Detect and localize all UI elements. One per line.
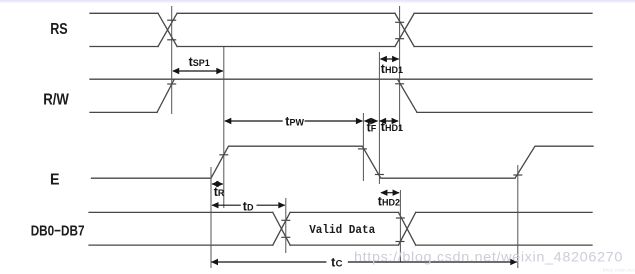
svg-text:E: E bbox=[50, 172, 60, 189]
DB crossover X2 bbox=[399, 212, 416, 245]
cursor line at RS/RW hold upper (x=399.6) bbox=[399, 6, 401, 131]
DB high rail bbox=[89, 211, 592, 213]
tick DB X2 upper bbox=[396, 217, 405, 219]
tR arrow bbox=[212, 183, 223, 185]
tick RS X2 upper bbox=[395, 21, 404, 23]
arrows bbox=[172, 56, 517, 265]
cursor line at E fall start (x=363.4) bbox=[362, 113, 364, 181]
R/W low rail right bbox=[417, 111, 592, 113]
svg-text:tSP1: tSP1 bbox=[189, 55, 210, 69]
RS crossover X2 bbox=[395, 13, 414, 46]
cursor line at next E rise (x=517.8) bbox=[517, 165, 519, 268]
DB crossover X1 bbox=[273, 212, 290, 245]
tick DB X2 lower bbox=[396, 241, 405, 243]
tick DB X1 upper bbox=[281, 219, 290, 221]
tick E rise1 bbox=[219, 154, 228, 156]
tC arrow bbox=[212, 261, 327, 263]
tick DB X1 lower bbox=[281, 236, 290, 238]
DB low rail bbox=[89, 244, 592, 246]
cursor line at RS/RW valid (x=171.7) bbox=[171, 6, 173, 114]
tF arrow bbox=[364, 120, 377, 122]
cursor line at data hold lower (x=400.4) bbox=[399, 190, 401, 262]
cursor line at E rise end (x=223.8) bbox=[223, 47, 225, 208]
svg-text:tHD1: tHD1 bbox=[381, 120, 403, 134]
R/W high rail bbox=[90, 78, 592, 80]
measurement ticks bbox=[167, 20, 522, 241]
svg-text:https://blog.csdn.net/weixin_4: https://blog.csdn.net/weixin_48206270 bbox=[354, 249, 623, 265]
svg-text:tR: tR bbox=[214, 185, 225, 199]
cursor line at E rise start (x=211) bbox=[210, 167, 212, 268]
cursor line at data valid (x=285.8) bbox=[285, 198, 287, 253]
top border strip bbox=[0, 0, 635, 2]
RS low rail bbox=[90, 46, 592, 48]
tick RS X1 upper bbox=[167, 19, 176, 21]
tick E fall top bbox=[358, 148, 367, 150]
svg-text:tPW: tPW bbox=[285, 115, 304, 129]
svg-text:blog.csdn.net: blog.csdn.net bbox=[603, 268, 635, 273]
svg-text:tF: tF bbox=[367, 121, 377, 135]
svg-text:tHD2: tHD2 bbox=[378, 195, 400, 209]
tSP1 arrow bbox=[173, 70, 223, 72]
svg-text:tC: tC bbox=[331, 255, 343, 269]
tick R/W fall bbox=[395, 83, 404, 85]
tHD2 arrow bbox=[381, 192, 399, 194]
tick E fall bottom bbox=[375, 174, 384, 176]
tick R/W rise bbox=[167, 83, 176, 85]
svg-text:R/W: R/W bbox=[43, 92, 69, 109]
tick RS X2 lower bbox=[395, 38, 404, 40]
cursor line at E fall end (x=379.4) bbox=[378, 52, 380, 184]
E waveform bbox=[92, 146, 594, 178]
tD arrow bbox=[212, 204, 241, 206]
tick RS X1 lower bbox=[167, 39, 176, 41]
svg-text:DB0−DB7: DB0−DB7 bbox=[31, 222, 85, 239]
R/W rising edge bbox=[157, 79, 174, 112]
R/W low rail left bbox=[90, 111, 157, 113]
RS high rail bbox=[90, 12, 592, 14]
RS crossover X1 bbox=[158, 13, 177, 46]
tick E rise2 bbox=[513, 174, 522, 176]
tPW arrow bbox=[225, 120, 283, 122]
tHD1 top arrow bbox=[380, 58, 398, 60]
R/W falling edge bbox=[398, 79, 418, 112]
tHD1 bottom arrow bbox=[380, 120, 399, 122]
svg-text:tD: tD bbox=[243, 200, 254, 214]
svg-text:RS: RS bbox=[50, 21, 68, 38]
svg-text:Valid Data: Valid Data bbox=[309, 223, 375, 237]
svg-text:tHD1: tHD1 bbox=[381, 62, 403, 76]
